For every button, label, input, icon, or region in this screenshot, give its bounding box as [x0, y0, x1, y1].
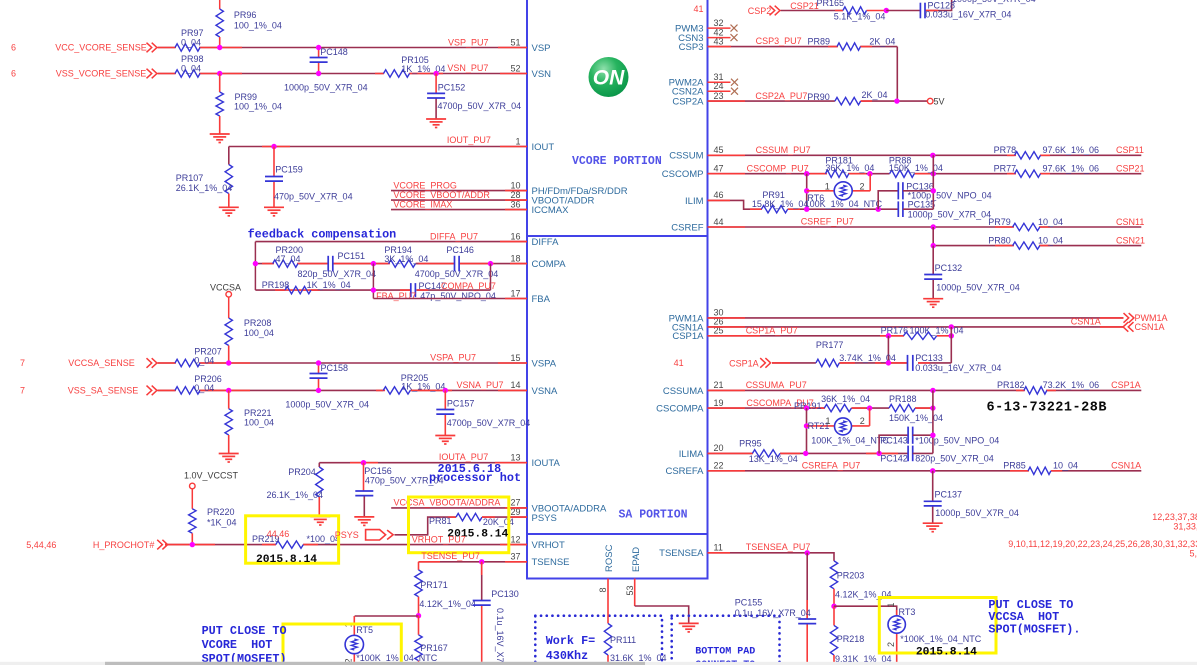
pin name TSENSEA [659, 548, 704, 559]
junction H_PROCHOT/PR220 [190, 542, 195, 547]
svg-text:41: 41 [674, 358, 684, 368]
svg-text:53: 53 [625, 585, 635, 595]
page ref 7 (VCCSA) [20, 358, 25, 368]
svg-text:PC146: PC146 [446, 245, 474, 255]
svg-text:COMPA_PU7: COMPA_PU7 [441, 281, 496, 291]
resistor PR207 [175, 359, 200, 366]
svg-text:1: 1 [826, 416, 831, 426]
svg-text:14: 14 [510, 380, 520, 390]
svg-text:EPAD: EPAD [631, 547, 642, 572]
svg-text:150K_1%_04: 150K_1%_04 [889, 163, 943, 173]
net label CSP1A_PU7 [746, 325, 798, 335]
net label CSN1A (right) [1135, 322, 1165, 332]
svg-text:8: 8 [598, 587, 608, 592]
wire VCORE_VBOOT/ADDR row [391, 199, 527, 201]
ground EPAD [679, 623, 699, 632]
net label CSN1A (on wire) [1071, 317, 1101, 327]
junction CSCOMP/RT6 left [804, 171, 809, 176]
wire PC142/PC143 right vertical [913, 390, 933, 453]
refdes PC159 [275, 165, 303, 175]
wire PC137 column [932, 471, 934, 523]
highlight yellow box PR81 [409, 497, 509, 553]
net label VSNA_PU7 [457, 380, 504, 390]
pin name CSSUMA [663, 386, 704, 397]
wire PC157 column [444, 390, 446, 435]
resistor PR181 [825, 170, 848, 177]
refdes PC132 [935, 263, 963, 273]
junction TSENSEA/PC155 [805, 550, 810, 555]
svg-text:2K_04: 2K_04 [869, 36, 895, 46]
value PR81 20K_04 [483, 517, 514, 527]
svg-text:CSN1A: CSN1A [1111, 461, 1141, 471]
refdes PR171 [420, 580, 448, 590]
pin name CSCOMP [662, 169, 704, 180]
no-connect pin 42 [731, 34, 738, 41]
pin name CSSUM [669, 151, 703, 162]
wire TSENSEA row (pin11) [708, 553, 835, 561]
svg-text:7: 7 [20, 358, 25, 368]
svg-text:PR198: PR198 [262, 280, 290, 290]
svg-text:2: 2 [860, 416, 865, 426]
wire PR177 row [772, 362, 951, 364]
pin number 28 [510, 190, 520, 200]
junction PC148 bottom [316, 71, 321, 76]
value PR98 0_04 [181, 64, 201, 74]
ground under PC159 [264, 207, 284, 216]
svg-text:4700p_50V_X7R_04: 4700p_50V_X7R_04 [447, 418, 531, 428]
svg-text:PR218: PR218 [837, 634, 865, 644]
junction IOUT/PC159 [271, 144, 276, 149]
svg-text:H_PROCHOT#: H_PROCHOT# [93, 540, 155, 550]
wire TSENSE row (pin37) [419, 561, 528, 563]
svg-text:PC142: PC142 [880, 454, 908, 464]
page ref 7 (VSS_SA) [20, 386, 25, 396]
net label IOUT_PU7 [447, 135, 491, 145]
svg-text:ROSC: ROSC [604, 544, 615, 572]
net label VCORE_IMAX [393, 199, 452, 209]
junction PR171/RT5 row [416, 613, 421, 618]
pin number 46 [714, 190, 724, 200]
junction CSSUMA vertical [930, 388, 935, 393]
wire RT21 left vertical [806, 408, 808, 453]
svg-text:PC152: PC152 [438, 83, 466, 93]
off-page connector CSP1A [760, 358, 770, 368]
comment PUT CLOSE TO (VCORE) line2 [202, 638, 273, 652]
capacitor PC157 [436, 410, 454, 415]
pin number 21 [714, 380, 724, 390]
net label VSP_PU7 [448, 37, 489, 47]
refdes PC148 [320, 47, 348, 57]
pin number 11 [714, 543, 723, 553]
svg-text:23: 23 [714, 91, 724, 101]
net label CSP3_PU7 [756, 36, 802, 46]
wire feedback right vertical [490, 264, 492, 291]
resistor PR81 [456, 513, 482, 520]
refdes PR165 [817, 0, 845, 8]
svg-text:2K_04: 2K_04 [862, 90, 888, 100]
value PR177 3.74K_1%_04 [839, 353, 896, 363]
resistor PR85 [1028, 467, 1051, 474]
svg-text:CSREF: CSREF [671, 222, 703, 233]
comment 2015.6.18 [438, 462, 502, 476]
svg-text:feedback compensation: feedback compensation [248, 228, 397, 242]
ground under PC157 [435, 436, 455, 445]
resistor PR176 [904, 332, 937, 339]
wire ROSC column [607, 579, 609, 666]
wire CSCOMPA row (pin19) [708, 407, 933, 409]
refdes PC130 [491, 589, 519, 599]
comment PUT CLOSE TO (VCCSA) line2 [988, 610, 1059, 624]
pin name CSP1A [672, 331, 704, 342]
svg-text:150K_1%_04: 150K_1%_04 [889, 413, 943, 423]
svg-text:4700p_50V_X7R_04: 4700p_50V_X7R_04 [415, 269, 499, 279]
svg-text:*100p_50V_NPO_04: *100p_50V_NPO_04 [915, 435, 999, 445]
off-page connector VSS_VCORE_SENSE [147, 69, 157, 79]
no-connect pin 24 [731, 88, 738, 95]
refdes PR95 [739, 438, 762, 448]
comment PUT CLOSE TO (VCCSA) line3 [988, 622, 1080, 636]
svg-text:1000p_50V_X7R_04: 1000p_50V_X7R_04 [952, 0, 1036, 4]
value PR221 100_04 [244, 417, 274, 427]
value PR105 1K_1%_04 [401, 64, 445, 74]
capacitor PC148 [310, 58, 328, 63]
resistor PR177 [816, 359, 839, 366]
junction PR165/PC128 [884, 8, 889, 13]
ground under PC156 [354, 517, 374, 526]
svg-text:PR176: PR176 [881, 325, 909, 335]
refdes PC135 [908, 200, 936, 210]
cut-off text top edge [952, 0, 1036, 4]
comment 430Khz [546, 649, 588, 663]
refdes PR207 [194, 346, 222, 356]
svg-text:44,46: 44,46 [267, 529, 290, 539]
net label VCORE_VBOOT/ADDR [393, 190, 490, 200]
comment 2015.8.14 (PR81 box) [447, 528, 508, 540]
no-connect pin 31 [731, 79, 738, 86]
refdes PC136 [906, 181, 934, 191]
resistor PR90 [835, 97, 861, 104]
svg-text:37: 37 [510, 552, 520, 562]
comment PUT CLOSE TO (VCCSA) line1 [988, 598, 1073, 612]
pin number 43 [714, 36, 724, 46]
off-page connector VSS_SA_SENSE [147, 386, 157, 396]
capacitor PC155 [798, 619, 816, 624]
junction PR177/PC133 [886, 360, 891, 365]
wire RT6 leads [807, 174, 871, 191]
pin name CSN1A [672, 322, 704, 333]
svg-text:PR77: PR77 [994, 163, 1017, 173]
svg-text:COMPA: COMPA [532, 259, 567, 270]
svg-text:10_04: 10_04 [1053, 461, 1078, 471]
svg-text:VCORE_PROG: VCORE_PROG [393, 180, 457, 190]
resistor PR98 [175, 70, 200, 77]
comment PUT CLOSE TO (VCORE) line3 [202, 652, 287, 666]
net label PWM1A (right) [1135, 313, 1168, 323]
value PC156 470p_50V_X7R_04 [365, 476, 444, 486]
resistor PR79 [1013, 223, 1040, 230]
page ref 41 top [693, 4, 703, 14]
pin name CSN3 [678, 33, 703, 44]
svg-text:0.1u_16V_X7R_: 0.1u_16V_X7R_ [495, 608, 505, 665]
junction COMPA right [488, 261, 493, 266]
pin name CSN2A [672, 87, 704, 98]
svg-text:PR97: PR97 [181, 28, 204, 38]
value PR206 0_04 [194, 383, 214, 393]
svg-text:2015.8.14: 2015.8.14 [256, 554, 317, 566]
comment processor hot [429, 471, 521, 485]
value PR99 100_1%_04 [234, 102, 282, 112]
pin number 23 [714, 91, 724, 101]
svg-text:PR188: PR188 [889, 394, 917, 404]
svg-text:CSCOMPA: CSCOMPA [656, 404, 704, 415]
wire PR107 column [228, 147, 230, 165]
net label CSSUMA_PU7 [746, 380, 807, 390]
pin number 1 [515, 136, 520, 146]
svg-text:PR85: PR85 [1003, 461, 1026, 471]
svg-text:2: 2 [886, 642, 896, 647]
refdes PC156 [364, 466, 392, 476]
refdes RT3 [899, 607, 916, 617]
net label VRHOT_PU7 [412, 534, 466, 544]
svg-text:ON: ON [593, 67, 625, 90]
svg-text:DIFFA: DIFFA [532, 237, 560, 248]
wire VSN row [158, 73, 528, 75]
value PC159 470p_50V_X7R_04 [274, 192, 353, 202]
resistor PR206 [175, 387, 200, 394]
pin number 24 [714, 81, 724, 91]
svg-text:CSP3: CSP3 [679, 42, 704, 53]
net label VSS_SA_SENSE [68, 386, 139, 396]
comment BOTTOM PAD [695, 646, 755, 657]
svg-text:26.1K_1%_04: 26.1K_1%_04 [176, 183, 233, 193]
junction CSCOMPA vertical [930, 405, 935, 410]
svg-text:CSN21: CSN21 [1116, 235, 1145, 245]
refdes PR198 [262, 280, 290, 290]
pin name VBOOT/ADDR [532, 196, 595, 207]
svg-text:TSENSE_PU7: TSENSE_PU7 [421, 551, 480, 561]
junction CSSUM vertical [930, 153, 935, 158]
refdes PR218 [837, 634, 865, 644]
refdes PR85 [1003, 461, 1026, 471]
svg-text:97.6K_1%_06: 97.6K_1%_06 [1043, 145, 1100, 155]
resistor PR198 [285, 286, 311, 293]
junction RT6 pin1 [804, 188, 809, 193]
svg-text:VSP: VSP [532, 43, 551, 54]
refdes PR97 [181, 28, 204, 38]
refdes PR177 [816, 340, 844, 350]
wire CSSUMA row (pin21) [708, 389, 1142, 391]
off-page connector CSP2 [770, 6, 780, 16]
pin number 53 [625, 585, 635, 595]
resistor PR107 [225, 165, 232, 208]
svg-text:CSP1A: CSP1A [1111, 380, 1141, 390]
highlight yellow box RT3 [879, 598, 996, 654]
wire COMPA row [255, 263, 527, 265]
junction VSNA/PR221 [226, 388, 231, 393]
pin name DIFFA [532, 237, 560, 248]
svg-text:PR171: PR171 [420, 580, 448, 590]
refdes PR194 [384, 245, 412, 255]
thermistor RT6 [834, 182, 852, 200]
svg-text:VSN_PU7: VSN_PU7 [447, 63, 488, 73]
value RT6 100K_1%_04_NTC [805, 199, 883, 209]
pin number 20 [714, 443, 724, 453]
value PC136 *100p_50V_NPO_04 [908, 190, 992, 200]
value PR194 3K_1%_04 [384, 254, 428, 264]
net label CSP21 [1116, 163, 1145, 173]
refdes PC137 [935, 490, 963, 500]
svg-text:1.0V_VCCST: 1.0V_VCCST [184, 471, 239, 481]
svg-text:VCORE PORTION: VCORE PORTION [572, 155, 662, 168]
junction ILIMA/PC142 [876, 451, 881, 456]
pin number RT6-1 [825, 182, 830, 192]
svg-text:*100K_1%_04_NTC: *100K_1%_04_NTC [900, 634, 982, 644]
dotted note box BOTTOM PAD [672, 616, 780, 670]
value PR97 0_04 [181, 38, 201, 48]
svg-text:VSNA_PU7: VSNA_PU7 [457, 380, 504, 390]
junction PR176/PC133 vertical [949, 333, 954, 338]
resistor PR171 [415, 570, 422, 616]
svg-text:1000p_50V_X7R_04: 1000p_50V_X7R_04 [285, 400, 369, 410]
svg-text:VSP_PU7: VSP_PU7 [448, 37, 489, 47]
wire PC136 branch [878, 191, 898, 209]
resistor PR221 [225, 390, 232, 453]
resistor PR200 [273, 260, 298, 267]
junction IOUTA/PC156 [361, 460, 366, 465]
net label PSYS [335, 530, 359, 540]
svg-text:20: 20 [714, 443, 724, 453]
pin number 51 [510, 37, 520, 47]
wire PR204 column [318, 463, 320, 467]
wire RT6 left vertical [806, 174, 808, 210]
capacitor PC159 [265, 177, 283, 182]
svg-text:VRHOT_PU7: VRHOT_PU7 [412, 534, 466, 544]
svg-text:1K_1%_04: 1K_1%_04 [307, 280, 351, 290]
svg-text:6-13-73221-28B: 6-13-73221-28B [987, 401, 1107, 416]
ground under PR107 [219, 207, 239, 216]
value PC147 47p_50V_NPO_04 [420, 291, 496, 301]
refdes PR79 [988, 217, 1011, 227]
svg-text:CSREFA_PU7: CSREFA_PU7 [802, 460, 861, 470]
net label IOUTA_PU7 [439, 452, 488, 462]
svg-text:PR99: PR99 [235, 92, 258, 102]
wire CSSUM row (pin45) [708, 154, 1142, 156]
refdes PR111 [610, 635, 636, 645]
resistor PR219 [276, 541, 304, 548]
resistor PR208 [225, 318, 232, 363]
svg-text:ILIMA: ILIMA [679, 449, 704, 460]
wire VSP row [158, 47, 528, 49]
thermistor RT5 [345, 635, 363, 653]
window scrollbar track bottom [0, 662, 1197, 665]
op-amp U1 block box 2 (SA section) [527, 236, 708, 534]
value PR191 36K_1%_04 [821, 394, 870, 404]
pin number 26 [714, 317, 724, 327]
svg-text:PR96: PR96 [234, 10, 257, 20]
svg-text:19: 19 [714, 398, 724, 408]
value PR198 1K_1%_04 [307, 280, 351, 290]
svg-text:15: 15 [510, 353, 520, 363]
svg-text:16: 16 [510, 231, 520, 241]
net label VCORE_PROG [393, 180, 457, 190]
svg-text:6: 6 [11, 69, 16, 79]
net label TSENSEA_PU7 [746, 542, 811, 552]
svg-text:VSS_SA_SENSE: VSS_SA_SENSE [68, 386, 139, 396]
pin number 22 [714, 461, 724, 471]
value PR204 26.1K_1%_04 [267, 490, 324, 500]
value PR90 2K_04 [862, 90, 888, 100]
svg-text:7: 7 [20, 386, 25, 396]
net label CSN1A (CSREFA row) [1111, 461, 1141, 471]
svg-text:PR203: PR203 [837, 570, 865, 580]
svg-text:1000p_50V_X7R_04: 1000p_50V_X7R_04 [908, 210, 992, 220]
value PC128 0.033u_16V_X7R_04 [925, 10, 1011, 20]
page ref 31,33,3 [1173, 522, 1197, 532]
wire H_PROCHOT row (to VRHOT pin 12) [165, 544, 527, 546]
junction CSCOMP vertical [931, 171, 936, 176]
pin name CSP3 [679, 42, 704, 53]
refdes RT6 [807, 193, 824, 203]
svg-text:470p_50V_X7R_04: 470p_50V_X7R_04 [274, 192, 353, 202]
pin number 18 [510, 253, 520, 263]
svg-text:10_04: 10_04 [1038, 235, 1063, 245]
junction VSP/PR96 [217, 45, 222, 50]
power symbol 1.0V_VCCST [184, 471, 239, 489]
value PC151 820p_50V_X7R_04 [298, 269, 377, 279]
svg-text:CSN1A: CSN1A [1135, 322, 1165, 332]
junction PR80 [931, 243, 936, 248]
refdes PR98 [181, 54, 204, 64]
svg-text:VRHOT: VRHOT [532, 540, 565, 551]
pin name VSN [532, 69, 552, 80]
capacitor PC151 [328, 256, 333, 272]
value PR95 13K_1%_04 [749, 454, 798, 464]
svg-text:CSCOMP: CSCOMP [662, 169, 704, 180]
wire VCCSA to PR208 [228, 297, 230, 318]
pin name PSYS [532, 513, 557, 524]
svg-text:0.1u_16V_X7R_04: 0.1u_16V_X7R_04 [735, 608, 811, 618]
svg-text:FBA: FBA [532, 294, 551, 305]
wire PC156 column [363, 463, 366, 517]
value PR89 2K_04 [869, 36, 895, 46]
pin name CSCOMPA [656, 404, 704, 415]
svg-text:820p_50V_X7R_04: 820p_50V_X7R_04 [915, 454, 994, 464]
svg-text:4700p_50V_X7R_04: 4700p_50V_X7R_04 [438, 101, 522, 111]
wire PC158 column [318, 363, 320, 390]
off-page connector VCC_VCORE_SENSE [147, 43, 157, 53]
pin number 12 [510, 534, 520, 544]
refdes RT5 [356, 625, 373, 635]
svg-text:CSP1A_PU7: CSP1A_PU7 [746, 325, 798, 335]
refdes PR90 [807, 92, 830, 102]
svg-text:PC132: PC132 [935, 263, 963, 273]
svg-text:PR221: PR221 [244, 408, 272, 418]
wire PC152 column [435, 74, 437, 120]
svg-text:VCORE_IMAX: VCORE_IMAX [393, 199, 452, 209]
value PR107 26.1K_1%_04 [176, 183, 233, 193]
svg-text:RT5: RT5 [356, 625, 373, 635]
svg-text:0_04: 0_04 [194, 383, 214, 393]
svg-text:100K_1%_04_NTC: 100K_1%_04_NTC [805, 199, 883, 209]
wire DIFFA row [255, 241, 527, 243]
wire caps right vertical [903, 155, 933, 209]
net label CSN21 [1116, 235, 1145, 245]
resistor PR99 [216, 74, 223, 135]
wire RT5 column [353, 616, 355, 665]
wire feedback left vertical [254, 242, 256, 291]
value PC143 *100p_50V_NPO_04 [915, 435, 999, 445]
net label VCC_VCORE_SENSE [55, 43, 147, 53]
